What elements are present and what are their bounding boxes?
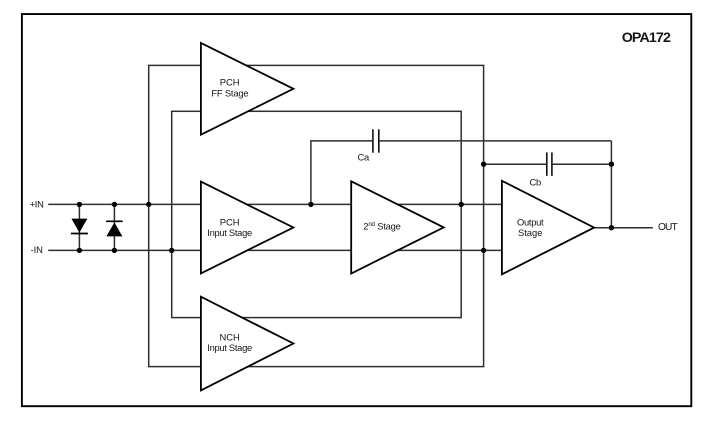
svg-text:PCH: PCH: [220, 216, 240, 227]
junction +IN / Ca net: [308, 202, 313, 207]
op-amp A3 2nd Stage: [351, 181, 444, 273]
junction +IN / D2: [112, 202, 117, 207]
wire Cb feedback net: [484, 163, 612, 165]
svg-text:OUT: OUT: [658, 222, 677, 233]
op-amp A1 PCH FF Stage: [201, 43, 294, 135]
junction output node: [609, 225, 614, 230]
capacitor Cb: [547, 152, 552, 176]
svg-text:Ca: Ca: [358, 152, 370, 163]
junction -IN / D2: [112, 248, 117, 253]
diode D1: [71, 219, 88, 234]
wire +IN rail: [48, 203, 502, 205]
svg-text:FF Stage: FF Stage: [211, 87, 248, 98]
junction -IN / inner loop: [169, 248, 174, 253]
svg-text:Cb: Cb: [530, 176, 541, 187]
svg-text:+IN: +IN: [30, 198, 44, 209]
op-amp A2 PCH Input Stage: [201, 182, 294, 274]
junction FF feed / outer loop: [481, 248, 486, 253]
junction -IN / D1: [77, 248, 82, 253]
wire output node vertical: [610, 141, 612, 228]
junction +IN / D1: [77, 202, 82, 207]
capacitor Ca: [373, 129, 379, 152]
junction +IN / outer loop: [146, 202, 151, 207]
wire diode D2 branch: [113, 204, 115, 250]
wire diode D1 branch: [78, 204, 80, 250]
svg-text:Stage: Stage: [518, 227, 543, 238]
wire Ca feedback net: [311, 141, 612, 205]
wire OUT lead: [594, 227, 653, 229]
op-amp A5 NCH Input Stage: [201, 297, 294, 391]
svg-text:Output: Output: [517, 216, 544, 227]
svg-text:NCH: NCH: [219, 331, 239, 342]
junction Cb right: [609, 162, 614, 167]
op-amp A4 Output Stage: [502, 181, 594, 274]
wire outer loop (FF stage feed): [149, 65, 484, 366]
svg-text:-IN: -IN: [31, 244, 43, 255]
svg-text:Input Stage: Input Stage: [207, 342, 252, 353]
junction Cb left: [481, 162, 486, 167]
wire -IN rail: [48, 249, 502, 251]
svg-text:Input Stage: Input Stage: [207, 227, 252, 238]
diode D2: [106, 221, 123, 236]
svg-text:OPA172: OPA172: [622, 30, 671, 46]
wire inner loop (NCH stage feed): [172, 111, 462, 317]
junction 2nd stage out / inner loop: [459, 202, 464, 207]
svg-text:PCH: PCH: [220, 77, 240, 88]
